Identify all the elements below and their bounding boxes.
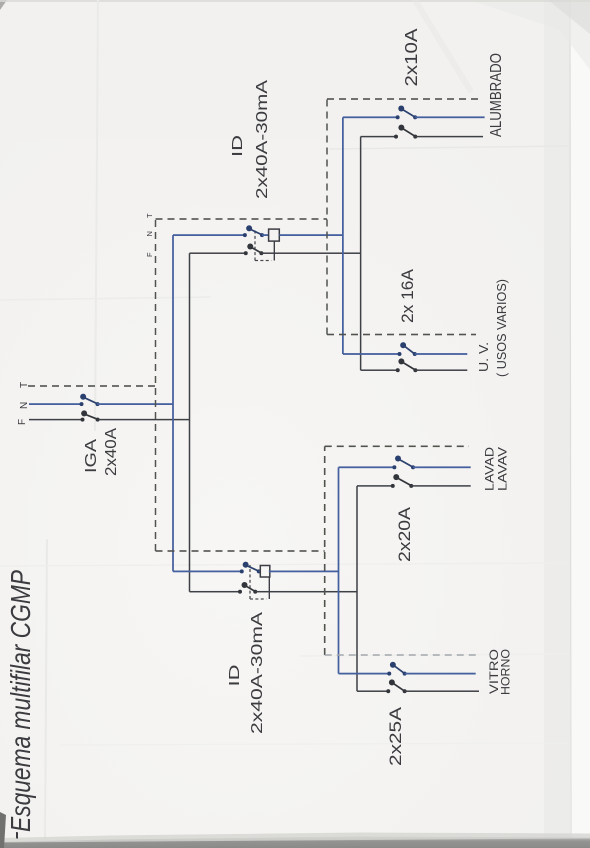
wire N circuit 2x25A <box>339 673 390 675</box>
wire T earth horizontal trunk <box>155 219 157 551</box>
bottom edge shadow <box>0 837 590 848</box>
breaker 2x25A pole F <box>386 679 406 693</box>
svg-text:( USOS VARIOS): ( USOS VARIOS) <box>495 279 509 377</box>
breaker 2x16A pole F <box>396 358 418 372</box>
wire F left distribution trunk <box>356 486 358 691</box>
svg-text:2x40A: 2x40A <box>103 428 120 476</box>
wire N horizontal trunk <box>172 235 174 571</box>
wire N to load ALUMBRADO <box>415 116 485 118</box>
breaker 2x16A pole N <box>398 342 417 356</box>
wire N drop to ID1 <box>173 234 245 236</box>
wire T earth supply drop <box>28 385 156 387</box>
wire N circuit 2x16A <box>343 353 400 355</box>
wire T earth to LAVAD <box>325 445 469 447</box>
wire T earth to U.V. <box>327 334 476 336</box>
wire F circuit 2x16A <box>361 369 398 371</box>
wire F drop to ID1 <box>190 252 246 254</box>
wire N to load LAVAD <box>413 466 471 468</box>
svg-text:HORNO: HORNO <box>501 649 513 695</box>
svg-text:T: T <box>145 213 154 218</box>
svg-text:U. V.: U. V. <box>477 342 491 372</box>
svg-text:ALUMBRADO: ALUMBRADO <box>488 53 505 137</box>
svg-text:F: F <box>17 419 28 425</box>
differential ID2 pole N <box>240 562 270 577</box>
wire F to load VITRO HORNO <box>405 690 479 692</box>
breaker IGA pole F <box>81 410 100 421</box>
wire F to load U.V. <box>415 369 467 371</box>
wire N left distribution trunk <box>338 467 340 673</box>
svg-text:2x20A: 2x20A <box>395 506 414 562</box>
svg-text:N: N <box>145 231 154 236</box>
svg-text:IGA: IGA <box>83 439 100 473</box>
breaker 2x20A pole N <box>392 456 415 470</box>
wire N below IGA <box>97 403 173 405</box>
wire N to load VITRO HORNO <box>405 673 476 675</box>
svg-text:N: N <box>19 402 30 409</box>
node labels F N T at ID1 corner <box>145 213 154 257</box>
wire F circuit 2x20A <box>357 485 393 487</box>
svg-text:Esquema multifilar CGMP: Esquema multifilar CGMP <box>5 570 36 832</box>
breaker 2x10A pole F <box>394 125 417 139</box>
wire T earth left bus <box>324 446 326 655</box>
wire F to load LAVAD <box>411 485 470 487</box>
wire N right distribution trunk <box>342 117 344 354</box>
wire T earth drop left <box>156 550 325 552</box>
wire T earth to ALUMBRADO <box>327 98 481 100</box>
differential ID2 pole F <box>238 565 269 599</box>
wire F to load ALUMBRADO <box>415 136 483 138</box>
wire T earth to VITRO <box>325 654 476 656</box>
svg-text:2x 16A: 2x 16A <box>398 268 417 323</box>
breaker IGA pole N <box>80 394 100 406</box>
svg-text:LAVAV: LAVAV <box>496 447 510 491</box>
wire N ID1 to right trunk <box>279 234 343 236</box>
wire N drop to ID2 <box>173 570 242 572</box>
breaker 2x25A pole N <box>387 662 406 676</box>
wire N circuit 2x10A <box>343 116 398 118</box>
title: Esquema multifilar CGMP <box>0 570 36 840</box>
wire N supply drop <box>29 403 82 405</box>
svg-text:LAVAD: LAVAD <box>483 447 497 491</box>
svg-text:ID: ID <box>229 135 246 157</box>
svg-text:2x10A: 2x10A <box>401 28 421 86</box>
svg-text:VITRO: VITRO <box>489 649 501 694</box>
wire F circuit 2x25A <box>357 690 388 692</box>
svg-text:ID: ID <box>226 664 243 686</box>
wire N to load U.V. <box>415 353 468 355</box>
wire F drop to ID2 <box>190 591 241 593</box>
breaker 2x10A pole N <box>396 106 418 120</box>
differential ID1 pole F <box>244 229 274 261</box>
wire F circuit 2x10A <box>361 136 396 138</box>
wire T earth right bus <box>326 99 328 335</box>
svg-text:2x40A-30mA: 2x40A-30mA <box>249 611 266 734</box>
breaker 2x20A pole F <box>391 474 414 488</box>
wire T earth drop right <box>156 218 328 220</box>
wire N ID2 to left trunk <box>269 570 339 572</box>
svg-text:2x40A-30mA: 2x40A-30mA <box>254 79 271 199</box>
svg-text:2x25A: 2x25A <box>386 706 405 766</box>
differential ID1 pole N <box>243 225 279 241</box>
wire N circuit 2x20A <box>339 466 395 468</box>
svg-text:T: T <box>19 382 30 388</box>
wire F right distribution trunk <box>360 137 362 371</box>
wire F ID2 to left trunk <box>255 591 357 593</box>
wire F horizontal trunk <box>189 253 191 592</box>
wire F supply drop <box>29 419 83 421</box>
wire F below IGA <box>98 419 190 421</box>
svg-text:F: F <box>145 252 154 257</box>
wire F ID1 to right trunk <box>261 252 360 254</box>
